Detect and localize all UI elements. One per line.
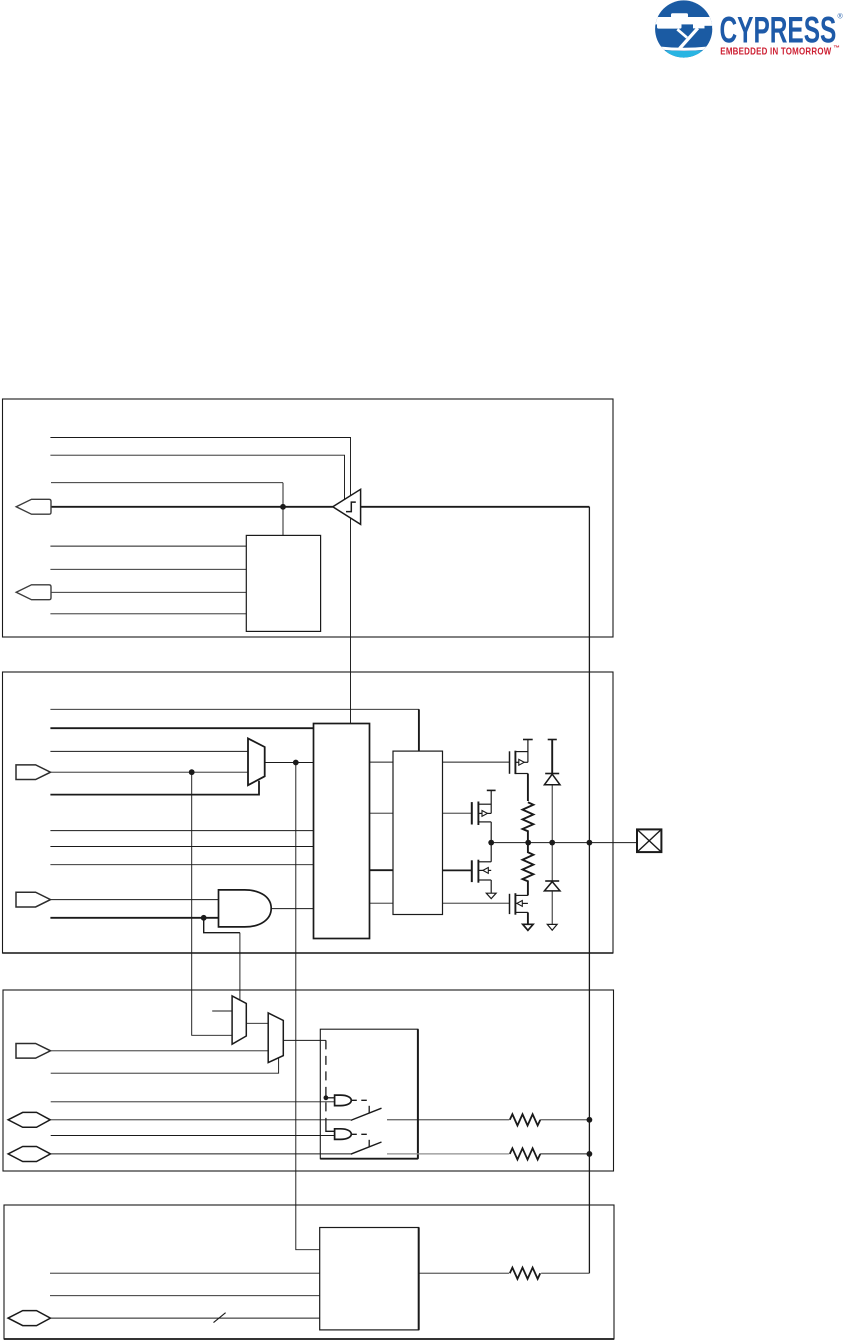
wire: enable wrap to section 3 mux — [204, 918, 240, 933]
svg-text:®: ® — [838, 13, 844, 21]
logo water — [651, 49, 717, 60]
wire: tap line from section 2 down to mux M2 input — [192, 772, 232, 1035]
section box: firmware controlled path — [4, 1205, 614, 1339]
logo tree foliage — [671, 13, 688, 18]
wire: control line into drive logic top — [50, 708, 419, 710]
wire: gate drive to weak nmos Q3 (thick) — [443, 869, 472, 871]
node: pad net junction c — [549, 840, 555, 846]
wire: drive mode select 1 — [50, 846, 313, 848]
pin: core-side output enable pin arrow 4 — [16, 892, 51, 907]
wire: mux data input 0 — [50, 750, 248, 752]
wire: switch 2 control tick — [368, 1140, 370, 1147]
wire: logic to predriver link 1 — [370, 761, 394, 763]
supply tick Q2 — [487, 789, 496, 791]
pin: bidirectional hexagon pin 1 — [8, 1112, 50, 1127]
wire: logic to predriver link 2 — [370, 812, 394, 814]
wire: long vertical from section 2 mux output into block B4 — [296, 763, 320, 1250]
logo water gap — [653, 47, 715, 49]
wire: gate drive to weak pmos Q2 — [443, 812, 472, 814]
wire: stub input to mux M2 — [212, 1010, 232, 1012]
section box bottom edge (thick) — [4, 1338, 614, 1340]
wire: thick drop into drive logic (vertical) — [418, 709, 420, 751]
node: junction tap on output data line — [189, 769, 195, 775]
wire: drive mode select 0 — [50, 830, 313, 832]
transistor Q3: weak pull-down nmos — [472, 843, 496, 899]
hysteresis glyph — [346, 502, 356, 512]
wire: gate drive to strong pmos Q1 — [443, 761, 510, 763]
node: pad net junction a — [488, 840, 494, 846]
wire: block input a — [50, 545, 246, 547]
gate G1: output enable AND gate — [219, 890, 272, 927]
SECTION2 — [3, 672, 662, 1000]
wire: buffered input to core (thick) — [51, 506, 333, 508]
wire: resistor R5 to pad line — [541, 1272, 589, 1274]
wire: block output to resistor R5 — [419, 1272, 509, 1274]
wire: hexagon pin 2 line to switch 2 — [51, 1153, 351, 1155]
wire: hexagon pin 1 line to switch 1 — [50, 1119, 351, 1121]
wire: thick mux select line — [50, 781, 259, 795]
wire: switch 1 output to resistor R3 — [387, 1119, 509, 1121]
supply tick Q1 — [523, 739, 533, 741]
pad P1: bond pad symbol — [637, 829, 661, 852]
svg-text:™: ™ — [834, 45, 841, 52]
node: junction on output enable — [201, 915, 207, 921]
section box: digital input path — [3, 399, 614, 637]
wire: mux M3 select line — [51, 1058, 279, 1073]
resistor R1: pull-up series resistor — [523, 802, 534, 842]
wire: Q2 drain to pad node — [490, 822, 492, 843]
pin: core-side input pin arrow 2 — [16, 585, 51, 600]
mux M2: select mux a — [232, 996, 246, 1044]
section box: digital output path — [3, 672, 614, 953]
pin: core-side output pin arrow 3 — [16, 765, 51, 780]
wire: block input d — [50, 613, 246, 615]
node: junction on mux output — [293, 760, 299, 766]
wire: AND G2 lower input from core — [51, 1101, 335, 1103]
wire: dashed tap to AND gate G2 — [326, 1097, 335, 1099]
transistor Q1: strong pull-up pmos — [510, 740, 533, 802]
wire: switch 1 control tick — [368, 1106, 370, 1113]
block: capsense / firmware block — [320, 1228, 419, 1330]
wire: block input 2 — [50, 1295, 320, 1297]
node: pad net junction d — [587, 840, 593, 846]
wire: buffer input from pad line (thick) — [361, 506, 590, 508]
wire: pin 4 output enable line — [51, 899, 219, 901]
wire: logic to predriver link 3 (thick) — [370, 869, 394, 871]
switch SW1: analog switch arm 1 — [351, 1108, 382, 1120]
wire: pin 5 line to mux M3 — [51, 1050, 268, 1052]
wire: resistor R4 to pad line — [540, 1153, 589, 1155]
block bottom edge (thick) — [320, 1158, 418, 1160]
wire: vertical tap into config block — [282, 483, 284, 536]
diode D2: ESD diode to vssio — [544, 843, 560, 931]
wire: mux M3 output into switch block — [283, 1039, 326, 1041]
wire: thick control line into output logic — [50, 727, 313, 729]
ground arrow Q3 — [486, 893, 496, 898]
wire: drive mode select 2 — [50, 864, 313, 866]
ground arrow Q4 (thick) — [523, 924, 533, 930]
wire: mux M2 output to mux M3 — [246, 1022, 268, 1024]
wire: Q1 source down to resistor — [527, 774, 529, 802]
wire: logic to predriver link 4 — [370, 902, 394, 904]
wire: pad net center line — [491, 842, 637, 844]
pin: bidirectional hexagon pin 3 — [8, 1311, 50, 1326]
resistor R2: pull-down series resistor — [523, 843, 534, 883]
pin: core-side input pin arrow 1 — [16, 499, 51, 514]
node: junction on pad line 1 — [587, 1117, 593, 1123]
wire: input buffer disable control — [50, 455, 344, 499]
section box bottom edge (thick) — [3, 952, 614, 954]
ground arrow D2 — [547, 924, 557, 930]
block: input configuration block — [246, 535, 320, 631]
wire: AND G3 lower input from core — [51, 1135, 335, 1137]
wire: pin 2 line into block — [51, 591, 246, 593]
section box: analog io path — [3, 990, 614, 1171]
logo wordmark CYPRESS — [720, 8, 837, 51]
wire: pin 3 output data line — [51, 771, 248, 773]
node: junction on dashed enable — [324, 1095, 329, 1100]
gate G2: switch control AND gate 1 — [335, 1095, 352, 1106]
wire: AND G2 dashed output — [351, 1099, 370, 1101]
logo tagline — [720, 45, 831, 56]
bus slash mark — [214, 1313, 226, 1323]
logo globe disc — [655, 0, 712, 57]
wire: block input b — [50, 568, 246, 570]
node: junction on pad line 2 — [587, 1151, 593, 1157]
wire: thick output enable line — [50, 917, 218, 919]
wire: Q4 drain up to resistor (thick) — [527, 883, 529, 895]
wire: block input 1 — [50, 1272, 320, 1274]
block: output driver predriver — [393, 751, 443, 914]
pin: bidirectional hexagon pin 2 — [8, 1147, 50, 1162]
diode D1: ESD diode to vddio — [544, 740, 560, 843]
wire: hexagon pin 3 bus line — [50, 1317, 319, 1319]
wire: dashed enable line — [325, 1040, 327, 1126]
node: junction on pin input line — [280, 504, 286, 510]
transistor Q2: weak pull-up pmos — [472, 790, 496, 842]
block right edge (thick) — [418, 1228, 420, 1330]
LOGO — [651, 0, 844, 60]
wire: input line 1 to buffer bypass (down to section 2 logic) — [50, 438, 350, 724]
wire: AND output to output logic — [271, 908, 313, 910]
mux M1: output source mux — [248, 738, 265, 785]
resistor R4: series resistor 2 — [510, 1148, 540, 1159]
wire: mux output to output logic — [265, 762, 314, 764]
pin: core-side pin arrow 5 — [16, 1043, 51, 1058]
resistor R3: series resistor 1 — [510, 1114, 540, 1125]
block: output logic / slew control — [314, 724, 370, 939]
SECTION3 — [3, 772, 614, 1171]
buffer U1: schmitt trigger input buffer — [333, 489, 361, 524]
svg-text:EMBEDDED IN TOMORROW: EMBEDDED IN TOMORROW — [720, 45, 831, 56]
node: pad net junction b — [525, 840, 531, 846]
wire: input config line into block — [51, 482, 283, 484]
gate G3: switch control AND gate 2 — [335, 1129, 352, 1140]
switch SW2: analog switch arm 2 — [351, 1142, 382, 1154]
wire: resistor R3 to pad line — [540, 1119, 589, 1121]
SECTION1 — [3, 399, 614, 724]
mux M3: select mux b — [268, 1013, 283, 1063]
block: analog switch block — [320, 1029, 418, 1159]
SECTION4 — [4, 507, 614, 1339]
wire: vertical down to section 3 mux top — [239, 933, 241, 1001]
logo tree trunk — [680, 28, 698, 48]
wire: pad net vertical line — [588, 507, 590, 1273]
wire: gate drive to strong nmos Q4 — [443, 902, 510, 904]
resistor R5: series resistor — [510, 1268, 540, 1279]
transistor Q4: strong pull-down nmos — [510, 883, 534, 930]
wire: AND G3 dashed output — [351, 1133, 370, 1135]
block right edge (thick) — [417, 1029, 419, 1159]
wire: switch 2 output (gray) to resistor R4 — [387, 1153, 509, 1155]
